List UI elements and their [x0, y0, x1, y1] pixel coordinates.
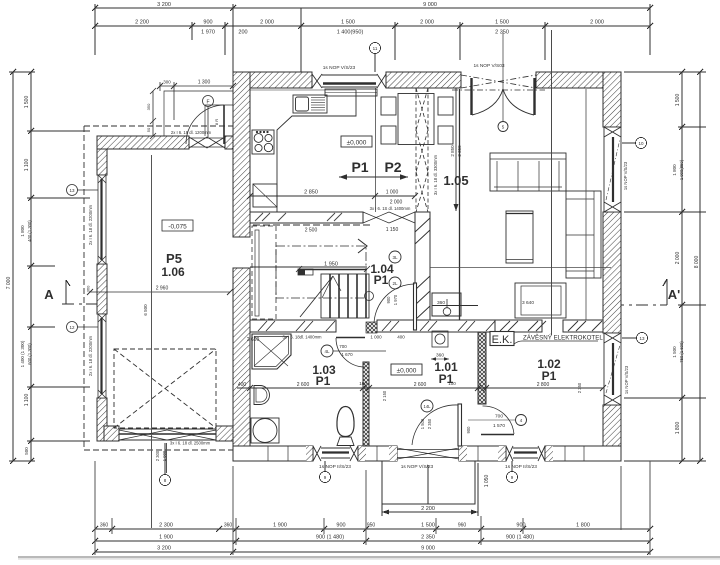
- svg-text:2 350: 2 350: [457, 145, 462, 157]
- svg-text:360: 360: [224, 523, 233, 529]
- svg-text:-0,075: -0,075: [168, 224, 187, 231]
- entrance sill: [397, 448, 459, 459]
- level -0,075: [162, 220, 193, 231]
- svg-text:3L: 3L: [392, 255, 398, 260]
- callout 3L: [389, 251, 401, 263]
- interior wall bath/vestibule: [363, 362, 369, 446]
- svg-text:1 800: 1 800: [20, 225, 25, 237]
- door height rotated dims: [214, 119, 219, 125]
- porch dim 2200: [382, 463, 478, 516]
- svg-text:1 500: 1 500: [24, 96, 30, 109]
- exterior wall top: [233, 72, 621, 88]
- svg-text:A': A': [668, 287, 680, 302]
- svg-text:600 (1 300): 600 (1 300): [27, 343, 32, 365]
- roof overhang dashed: [84, 126, 233, 450]
- extension line vertical annex: [151, 155, 153, 528]
- svg-text:2 000: 2 000: [420, 20, 434, 26]
- svg-text:1 900: 1 900: [159, 535, 173, 541]
- level 0,000 kitchen: [341, 136, 372, 147]
- vertical dim line living: [454, 88, 459, 211]
- G-MARKS: [0, 0, 1, 1]
- svg-text:1s NOP V/S/23: 1s NOP V/S/23: [401, 464, 434, 470]
- callout 12 left: [67, 322, 99, 333]
- callout 9 right: [507, 461, 518, 483]
- callout 11: [370, 43, 381, 73]
- annex bottom wall: [104, 426, 233, 441]
- small rotated dims 350/50: [150, 88, 156, 139]
- right window lower: [604, 333, 621, 405]
- kitchen counter: [250, 90, 356, 212]
- chimney shaft dashed: [416, 88, 428, 212]
- dim line 3200/9000 top row: [92, 4, 653, 72]
- svg-text:13: 13: [69, 188, 75, 193]
- svg-text:700: 700: [339, 344, 347, 349]
- entrance door leaf: [458, 404, 462, 446]
- svg-text:1 300: 1 300: [198, 80, 211, 86]
- svg-text:2 200: 2 200: [421, 506, 435, 512]
- chairs: [381, 97, 453, 144]
- svg-text:P1: P1: [374, 273, 389, 287]
- callout 9 left: [320, 461, 331, 483]
- annex top wall: [97, 136, 233, 149]
- dim 700/1570 door: [468, 414, 515, 430]
- double door arcs: [472, 89, 534, 115]
- svg-text:360: 360: [436, 353, 444, 359]
- small circle stair: [365, 292, 374, 301]
- lintel dashed over kitchen opening: [253, 224, 373, 226]
- floor line living: [585, 89, 587, 320]
- svg-text:400: 400: [397, 335, 405, 340]
- svg-text:900: 900: [466, 426, 471, 434]
- stair flight: [321, 274, 369, 318]
- washing machine: [251, 418, 279, 443]
- door 2L leaf: [414, 283, 417, 330]
- svg-text:2 000: 2 000: [390, 200, 403, 206]
- bath door 4L leaf: [336, 337, 365, 339]
- callout 2L: [389, 277, 401, 289]
- right window upper: [604, 127, 621, 212]
- svg-text:3x I 6. 1S dl. 1400mm: 3x I 6. 1S dl. 1400mm: [370, 206, 411, 211]
- svg-text:2 300: 2 300: [155, 450, 160, 461]
- svg-text:1 000: 1 000: [370, 335, 382, 340]
- svg-text:7 000: 7 000: [6, 277, 12, 290]
- svg-text:P1: P1: [542, 369, 557, 383]
- svg-text:9 000: 9 000: [421, 546, 435, 552]
- svg-text:1 500: 1 500: [341, 20, 355, 26]
- svg-text:P1: P1: [351, 159, 368, 175]
- svg-text:4L: 4L: [324, 349, 330, 354]
- svg-text:900 (1 480): 900 (1 480): [506, 535, 534, 541]
- wc niche box: [432, 293, 478, 316]
- svg-text:8 000: 8 000: [694, 256, 700, 269]
- svg-text:13: 13: [639, 336, 645, 341]
- G-DIMS-BOTTOM: [92, 443, 653, 555]
- svg-text:900 (1 480): 900 (1 480): [316, 535, 344, 541]
- svg-text:3x I 6. 18dl. 1400mm: 3x I 6. 18dl. 1400mm: [282, 335, 322, 340]
- window bottom left: [313, 446, 358, 461]
- interior wall hall bottom: [250, 320, 603, 332]
- svg-text:1 670: 1 670: [341, 352, 353, 357]
- svg-text:500: 500: [24, 447, 29, 455]
- svg-text:2 350: 2 350: [427, 418, 432, 429]
- arrow P1-P2: [339, 174, 408, 180]
- svg-text:2 850: 2 850: [450, 145, 455, 157]
- garage reserve dashed box: [114, 349, 216, 428]
- kitchen sink: [293, 95, 327, 113]
- svg-text:360: 360: [100, 523, 109, 529]
- svg-text:2 500: 2 500: [305, 228, 318, 234]
- stair arrow on opening line: [358, 239, 367, 253]
- svg-text:1 000: 1 000: [386, 190, 399, 196]
- door 2L arc: [374, 284, 415, 326]
- kitchen dim line 2850: [247, 193, 418, 199]
- door 1.02 arc: [483, 406, 515, 434]
- svg-text:360: 360: [86, 285, 91, 292]
- stair dim 1950: [296, 266, 370, 272]
- svg-text:700: 700: [495, 414, 503, 420]
- dining table: [398, 94, 434, 145]
- hob stove: [252, 130, 274, 154]
- landing edge line: [250, 266, 367, 268]
- svg-text:F: F: [206, 100, 209, 106]
- svg-text:3x I 6. 18 dl. 2500mm: 3x I 6. 18 dl. 2500mm: [170, 441, 211, 446]
- svg-text:1s NOP V/S/23: 1s NOP V/S/23: [624, 365, 629, 394]
- interior wall wc right: [459, 89, 461, 332]
- opening sill X in mid wall: [363, 212, 415, 223]
- G-DIMS-RIGHT: [576, 69, 706, 464]
- G-ANNEX: [67, 80, 237, 529]
- callout 13 left: [67, 185, 99, 196]
- svg-text:2 200: 2 200: [135, 20, 149, 26]
- svg-text:2 000: 2 000: [675, 252, 681, 265]
- annex window upper: [98, 175, 106, 264]
- section mark A': [612, 279, 680, 305]
- svg-text:10: 10: [638, 141, 644, 146]
- porch outline: [382, 461, 475, 504]
- svg-text:1 900(850): 1 900(850): [679, 159, 684, 180]
- callout 13 right: [622, 333, 648, 344]
- svg-text:100: 100: [359, 381, 367, 386]
- callout 8 annex: [160, 443, 171, 486]
- svg-text:1 500: 1 500: [420, 418, 425, 429]
- svg-text:1 570: 1 570: [493, 423, 505, 429]
- svg-text:1 970: 1 970: [201, 30, 215, 36]
- svg-text:P1: P1: [316, 374, 331, 388]
- interior dim line rooms: [237, 385, 606, 391]
- svg-text:1 800: 1 800: [672, 164, 677, 176]
- svg-text:2 150: 2 150: [382, 390, 387, 401]
- svg-text:1 400(950): 1 400(950): [337, 30, 364, 36]
- double door leaves: [472, 78, 535, 115]
- svg-text:1s NOP V/S03: 1s NOP V/S03: [473, 63, 504, 69]
- entrance door arc: [412, 405, 458, 445]
- tv bench: [515, 283, 566, 318]
- svg-text:1s NOP II/S/23: 1s NOP II/S/23: [319, 464, 351, 470]
- stair opening dash-dot: [276, 246, 366, 298]
- svg-text:900: 900: [336, 523, 345, 529]
- sofa: [490, 153, 566, 191]
- level 0,000 vestibule: [391, 364, 422, 375]
- svg-text:200: 200: [238, 30, 247, 36]
- bottom dim row 2: [92, 538, 653, 544]
- svg-text:1 100: 1 100: [24, 394, 30, 407]
- dim 360 heater: [431, 353, 449, 361]
- svg-text:1 500: 1 500: [495, 20, 509, 26]
- annex door F leaf and arc: [186, 105, 224, 144]
- G-DIMS-TOP: [92, 2, 653, 72]
- svg-text:2 350: 2 350: [421, 535, 435, 541]
- window bottom right: [506, 446, 545, 461]
- G-DIMS-LEFT: [6, 69, 98, 464]
- svg-text:3 640: 3 640: [522, 300, 534, 306]
- washbasin: [254, 386, 270, 405]
- svg-text:1 800: 1 800: [675, 422, 681, 435]
- G-KITCHEN: [247, 74, 469, 212]
- svg-text:1 500: 1 500: [675, 94, 681, 107]
- callout 10: [622, 138, 647, 149]
- svg-text:3 200: 3 200: [157, 546, 171, 552]
- svg-text:9 000: 9 000: [423, 2, 437, 8]
- svg-text:1 150: 1 150: [386, 227, 399, 233]
- svg-text:1 970: 1 970: [393, 294, 398, 305]
- G-BOTTOM-ROOMS: [313, 331, 603, 461]
- svg-text:8 R: 8 R: [214, 119, 219, 125]
- svg-text:±0,000: ±0,000: [397, 368, 417, 375]
- extension lines bottom: [95, 461, 650, 555]
- svg-text:1 100: 1 100: [24, 159, 30, 172]
- svg-text:P5: P5: [166, 251, 182, 266]
- svg-text:2 850: 2 850: [304, 190, 318, 196]
- svg-text:1 800: 1 800: [576, 523, 590, 529]
- callout 14L: [421, 400, 433, 412]
- bottom dim row 1: [92, 526, 653, 532]
- closet dashed hall: [252, 226, 276, 319]
- level mark hall: [298, 269, 313, 275]
- svg-text:900: 900: [386, 296, 391, 304]
- svg-text:3 200: 3 200: [157, 2, 171, 8]
- svg-text:E.K.: E.K.: [492, 334, 513, 346]
- double door sill dashed X: [452, 75, 545, 90]
- svg-text:12: 12: [69, 325, 75, 330]
- coffee table: [506, 211, 533, 263]
- svg-text:2 600: 2 600: [414, 382, 427, 388]
- svg-text:1 950: 1 950: [324, 262, 338, 268]
- exterior wall left: [233, 72, 250, 461]
- callout 5: [498, 33, 508, 132]
- svg-text:950: 950: [367, 523, 376, 529]
- svg-text:2 350: 2 350: [577, 382, 582, 393]
- exterior step outside door F: [164, 91, 233, 136]
- bath door 4L arc: [336, 338, 365, 367]
- callout 4L: [321, 345, 386, 357]
- svg-text:1s NOP II/S/23: 1s NOP II/S/23: [505, 464, 537, 470]
- svg-text:ZÁVĚSNÝ ELEKTROKOTEL: ZÁVĚSNÝ ELEKTROKOTEL: [523, 334, 603, 342]
- elektrokotel label: [514, 334, 603, 345]
- dim chain 7000 outer: [9, 69, 35, 464]
- svg-text:2 600: 2 600: [297, 382, 310, 388]
- dim chain 8000 outer right: [697, 69, 703, 464]
- jamb block bath door: [366, 322, 377, 333]
- svg-text:14L: 14L: [424, 404, 432, 409]
- svg-text:2x I 6. 18 dl. 2200mm: 2x I 6. 18 dl. 2200mm: [88, 335, 93, 376]
- svg-text:2L: 2L: [392, 281, 398, 286]
- svg-text:2x I 6. 18 dl. 1200mm: 2x I 6. 18 dl. 1200mm: [171, 130, 212, 135]
- porch center line: [427, 465, 429, 504]
- annex window lower: [98, 314, 106, 398]
- armchair: [566, 191, 601, 278]
- svg-text:P1: P1: [439, 372, 454, 386]
- svg-text:2 000: 2 000: [590, 20, 604, 26]
- exterior wall bottom: [233, 446, 621, 461]
- G-WALLS: [97, 72, 621, 461]
- left wall rail: [255, 230, 259, 316]
- kitchen window top: [312, 74, 386, 96]
- long extension line: [551, 30, 553, 335]
- svg-text:P2: P2: [384, 159, 401, 175]
- svg-text:400: 400: [238, 382, 247, 388]
- svg-text:1.06: 1.06: [161, 265, 185, 279]
- door 1.02 leaf: [481, 434, 514, 436]
- shower: [252, 334, 291, 369]
- svg-text:960: 960: [458, 523, 467, 529]
- interior wall kitchen/hall: [250, 212, 363, 223]
- svg-text:2 650: 2 650: [247, 337, 260, 343]
- EK box: [490, 332, 514, 347]
- svg-text:2 000: 2 000: [260, 20, 274, 26]
- svg-text:6 500: 6 500: [143, 304, 148, 316]
- floor divider P1/P2: [375, 88, 377, 212]
- svg-text:1 900: 1 900: [273, 523, 287, 529]
- exterior wall right: [603, 72, 621, 461]
- svg-text:±0,000: ±0,000: [347, 140, 367, 147]
- level line living: [430, 267, 611, 269]
- svg-text:1 500: 1 500: [421, 523, 435, 529]
- svg-text:900: 900: [203, 20, 212, 26]
- svg-text:1 400 (1 300): 1 400 (1 300): [20, 340, 25, 367]
- toilet: [337, 407, 354, 446]
- annex left wall: [97, 136, 107, 441]
- svg-text:1s NOP V/S/23: 1s NOP V/S/23: [323, 65, 356, 71]
- scan artifact bottom: [18, 556, 720, 558]
- svg-text:A: A: [44, 287, 54, 302]
- annex interior dim 2960: [87, 289, 233, 295]
- section mark A: [44, 280, 98, 304]
- svg-text:2 350: 2 350: [495, 30, 509, 36]
- svg-text:350: 350: [146, 103, 151, 110]
- G-LIVING: [430, 30, 629, 405]
- stair walk line: [300, 276, 341, 317]
- svg-text:750 (1 600): 750 (1 600): [679, 341, 684, 363]
- heater square: [432, 331, 448, 347]
- callout F: [203, 96, 214, 138]
- G-HALL: [250, 212, 478, 330]
- fridge: [253, 184, 277, 207]
- interior wall hall right / wc: [415, 212, 430, 332]
- svg-text:2 300: 2 300: [159, 523, 173, 529]
- svg-text:11: 11: [373, 46, 378, 51]
- svg-text:400 (1 300): 400 (1 300): [27, 220, 32, 242]
- bottom dim row 3: [92, 549, 653, 555]
- svg-text:1 500: 1 500: [672, 346, 677, 358]
- interior wall vestibule/room1.02: [478, 332, 486, 404]
- annex door F sill: [189, 137, 225, 148]
- svg-text:900: 900: [516, 523, 525, 529]
- svg-text:1s NOP V/S/23: 1s NOP V/S/23: [623, 161, 628, 190]
- svg-text:50: 50: [146, 127, 151, 132]
- door dim chain 300/1300: [157, 82, 236, 120]
- svg-text:3x I 6. 18 dl. 3300mm: 3x I 6. 18 dl. 3300mm: [433, 154, 438, 195]
- dim line second row: [92, 8, 653, 72]
- svg-text:300: 300: [163, 80, 171, 85]
- dim chain inner left: [27, 69, 90, 464]
- G-BATH: [237, 322, 606, 446]
- dim chain inner right: [624, 69, 706, 464]
- svg-text:2 960: 2 960: [156, 286, 169, 292]
- callout 4 door: [516, 415, 527, 426]
- garage door sill X: [119, 430, 216, 440]
- svg-text:1 050: 1 050: [484, 475, 490, 488]
- svg-text:2x I 6. 18 dl. 2200mm: 2x I 6. 18 dl. 2200mm: [88, 204, 93, 245]
